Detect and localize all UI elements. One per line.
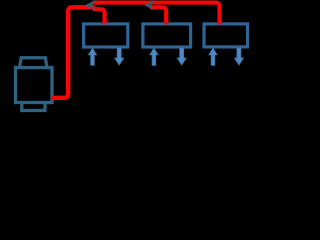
branch pipe to radiator 2 [150,7,166,24]
supply pipe: boiler stub, riser, first run to arrowhead 1 [51,7,95,98]
radiator 3 [204,24,248,47]
radiator 1 [84,24,128,47]
convection down arrow under radiator 3 [234,48,243,65]
convection up arrow under radiator 2 [150,48,158,65]
convection up arrow under radiator 1 [88,48,96,65]
flow arrowhead 1 (stealth, pointing left) [85,0,96,11]
convection down arrow under radiator 1 [115,48,124,65]
radiator 2 [143,24,191,47]
supply pipe: upper run from arrowhead 1 to drop into radiator 3 [93,3,220,25]
branch pipe to radiator 1 [93,9,105,24]
boiler base [22,103,45,111]
boiler body [16,68,53,103]
convection down arrow under radiator 2 [177,48,186,65]
flow arrowhead 2 (stealth, pointing left) [144,0,155,10]
boiler lid [20,58,47,67]
convection up arrow under radiator 3 [209,48,217,65]
